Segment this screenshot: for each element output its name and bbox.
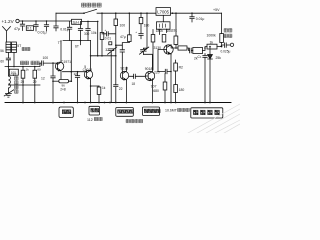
function box third stage: [143, 107, 160, 116]
node mid: [115, 55, 117, 57]
svg-text:300: 300: [84, 32, 90, 36]
wire cap bus: [63, 40, 91, 42]
node A4: [87, 21, 89, 23]
wire band bus: [5, 63, 40, 66]
resistor 10k: [100, 33, 104, 40]
wire x129 down: [128, 13, 130, 35]
capacitor coupling pair: [190, 48, 193, 53]
svg-text:22: 22: [119, 87, 123, 91]
capacitor 47u box: [128, 35, 132, 42]
svg-text:32: 32: [105, 48, 109, 52]
wire Q1 to Q2 base: [63, 71, 87, 73]
wire below small box: [160, 29, 167, 34]
node trimmer top: [115, 44, 117, 46]
capacitor 0.01u: [44, 21, 48, 31]
capacitor interstage: [129, 74, 145, 78]
wire 33k to audio line: [175, 45, 177, 49]
capacitor electrolytic 300: [86, 21, 90, 40]
svg-text:5: 5: [84, 65, 86, 69]
svg-text:180: 180: [144, 23, 150, 27]
resistor band 1: [22, 67, 24, 71]
svg-text:R2: R2: [179, 65, 183, 69]
capacitor 22: [114, 85, 118, 103]
component box below regulator: [157, 22, 171, 29]
svg-text:0.01: 0.01: [105, 36, 111, 40]
svg-text:5T: 5T: [17, 44, 21, 48]
svg-text:1k: 1k: [26, 67, 30, 71]
svg-text:0.01μ: 0.01μ: [196, 17, 205, 21]
wire Q1 collector up: [60, 41, 62, 63]
wire 2k to 1k: [203, 47, 208, 51]
terminal output: [230, 43, 233, 46]
wire pill right riser: [69, 41, 72, 82]
wire 180k branch down: [152, 42, 154, 70]
svg-text:180k: 180k: [156, 29, 164, 33]
ferrite coil primary: [6, 42, 11, 53]
wire rail corner down: [221, 13, 223, 33]
wire 1k to output cap: [221, 46, 223, 48]
capacitor 0.01u mixer: [67, 21, 71, 40]
antenna: [3, 27, 11, 43]
node A3: [46, 20, 48, 22]
wire riser to top rail: [55, 13, 57, 21]
capacitor electrolytic mid: [78, 21, 82, 40]
wire Q4 emitter down: [151, 79, 153, 103]
capacitor C1: [203, 54, 207, 103]
label short wave: [20, 61, 24, 65]
capacitor 0.01u rail right: [191, 12, 193, 14]
label medium wave: [31, 61, 35, 65]
resistor band 2: [34, 67, 36, 71]
svg-text:+5V: +5V: [213, 8, 220, 12]
svg-text:112: 112: [87, 118, 93, 122]
function box detector: [89, 106, 100, 115]
resistor 1k box: [207, 44, 217, 49]
svg-text:180: 180: [179, 88, 185, 92]
wire supply lower rail: [19, 20, 71, 22]
capacitor ant: [6, 53, 10, 67]
svg-text:L7005: L7005: [157, 10, 169, 15]
function box FM isolation: [191, 108, 223, 118]
svg-text:680: 680: [153, 89, 159, 93]
svg-text:56: 56: [0, 49, 4, 53]
wire down x102: [101, 13, 103, 32]
svg-text:22: 22: [74, 72, 78, 76]
wire x115 down: [115, 26, 117, 85]
resistor R2: [175, 60, 177, 63]
regulator box L7005: [156, 8, 171, 16]
wire below 10k: [101, 40, 103, 56]
svg-text:6T: 6T: [75, 45, 79, 49]
label feedback: [126, 119, 129, 122]
resistor 180 lower: [174, 85, 178, 93]
node A1: [22, 20, 24, 22]
wire trimmer to ground: [110, 54, 112, 102]
svg-text:25k: 25k: [216, 56, 222, 60]
wire Q3 emitter: [125, 80, 127, 103]
svg-text:33k: 33k: [172, 29, 178, 33]
trimmer arrow ant: [4, 90, 14, 96]
node rail x141: [140, 12, 142, 14]
node rail x147: [146, 12, 148, 14]
capacitor electrolytic 0.01 horizontal: [102, 32, 115, 36]
component box 100: [9, 69, 18, 75]
wire coil sec down: [13, 53, 15, 67]
svg-text:0.1: 0.1: [27, 27, 32, 31]
svg-text:47μ: 47μ: [14, 27, 20, 31]
ground rail: [5, 102, 231, 104]
svg-text:12: 12: [41, 76, 45, 80]
resistor 1k emitter: [98, 86, 100, 87]
svg-text:9018: 9018: [145, 67, 153, 71]
label secondary winding vertical: [15, 77, 18, 80]
wire top rail right of switch: [97, 12, 222, 14]
svg-text:18: 18: [132, 82, 136, 86]
svg-text:+1.2V: +1.2V: [2, 19, 15, 24]
svg-text:1000k: 1000k: [207, 34, 217, 38]
coil secondary 6T: [7, 67, 9, 77]
node rail x176: [175, 12, 177, 14]
resistor 180: [140, 13, 142, 17]
capacitor electrolytic below 180: [139, 24, 143, 39]
resistor 33k: [174, 36, 178, 45]
wire Q4 collector up to trimmer: [143, 54, 152, 71]
node rail x172: [172, 12, 174, 14]
wire band lower bus: [8, 78, 40, 102]
diode detector: [209, 47, 211, 55]
capacitor 12 branch: [51, 63, 55, 102]
svg-text:2μH: 2μH: [73, 21, 80, 25]
resistor 180k: [152, 30, 154, 35]
tiny box pad: [109, 42, 112, 45]
resistor 100 mid: [162, 35, 166, 43]
capacitor output: [217, 43, 230, 47]
wire branch right: [116, 45, 123, 71]
ground left: [5, 94, 11, 98]
wire coil to ground: [7, 88, 9, 94]
wire x176 down: [175, 13, 177, 36]
label ferrite rod: [22, 47, 25, 50]
svg-text:47μ: 47μ: [120, 35, 126, 39]
capacitor branch: [120, 50, 124, 52]
capacitor 0.1: [34, 21, 38, 31]
svg-text:60: 60: [0, 59, 4, 63]
watermark: [188, 104, 240, 133]
svg-text:0.025μ: 0.025μ: [221, 50, 231, 54]
svg-text:10k: 10k: [91, 31, 97, 35]
wire 1000k to audio node: [221, 43, 223, 47]
wire to coupling caps: [187, 48, 190, 51]
wire box to branch: [122, 42, 129, 50]
svg-text:C1: C1: [198, 55, 202, 59]
wire lower branch corner: [97, 21, 99, 55]
node bus: [80, 40, 82, 42]
svg-text:10.6MT: 10.6MT: [165, 109, 178, 113]
wire Q2 collector up: [91, 41, 116, 71]
node rail x103: [101, 12, 103, 14]
switch power blade: [83, 12, 85, 14]
svg-text:9018: 9018: [121, 66, 129, 70]
svg-text:60: 60: [37, 67, 41, 71]
svg-text:2×8: 2×8: [60, 87, 66, 91]
wire Q2 emitter: [90, 79, 92, 86]
svg-text:1k: 1k: [102, 86, 106, 90]
function box second stage: [116, 108, 134, 117]
wire top rail left of switch: [56, 12, 84, 14]
capacitor bypass on riser: [54, 21, 58, 31]
svg-text:+: +: [135, 30, 137, 34]
node A2: [35, 20, 37, 22]
wire Q5 emitter down: [170, 54, 172, 72]
node base branch: [52, 62, 54, 64]
wire bus drop: [80, 41, 82, 45]
wire after box: [82, 20, 98, 22]
wire pill left: [53, 80, 59, 82]
label voice input: [224, 29, 227, 32]
inductor 2uH box in series: [72, 19, 82, 24]
label power switch: [82, 3, 86, 7]
capacitor base coupling: [40, 61, 57, 65]
trimmer capacitor 22p osc: [140, 47, 149, 54]
wire Q1 emitter down: [60, 71, 62, 80]
function box converter: [59, 107, 73, 118]
capacitor 47u electrolytic: [20, 21, 24, 31]
svg-text:0.01μ: 0.01μ: [60, 28, 69, 32]
node rail x115: [115, 12, 117, 14]
inductor pill 2x8: [59, 79, 69, 83]
resistor 1000k: [220, 34, 224, 43]
resistor 2k box: [193, 48, 203, 54]
svg-text:100: 100: [120, 23, 126, 27]
node rail x129: [129, 12, 131, 14]
svg-text:0.01μ: 0.01μ: [38, 31, 47, 35]
ferrite coil secondary: [12, 42, 17, 53]
svg-text:20: 20: [21, 80, 25, 84]
svg-text:1k: 1k: [210, 40, 214, 44]
terminal +1.2V: [16, 19, 19, 22]
svg-text:100: 100: [43, 56, 49, 60]
wire below regulator: [162, 15, 164, 21]
wire Q5 collector node: [171, 45, 178, 48]
svg-text:+: +: [105, 28, 107, 32]
trimmer capacitor 32: [108, 47, 117, 55]
resistor 100 top: [115, 13, 117, 19]
resistor audio series: [178, 46, 187, 50]
ground rail junction dots: [52, 102, 54, 104]
value 0.1 boxed: [26, 26, 33, 31]
svg-text:TT: TT: [58, 41, 62, 45]
